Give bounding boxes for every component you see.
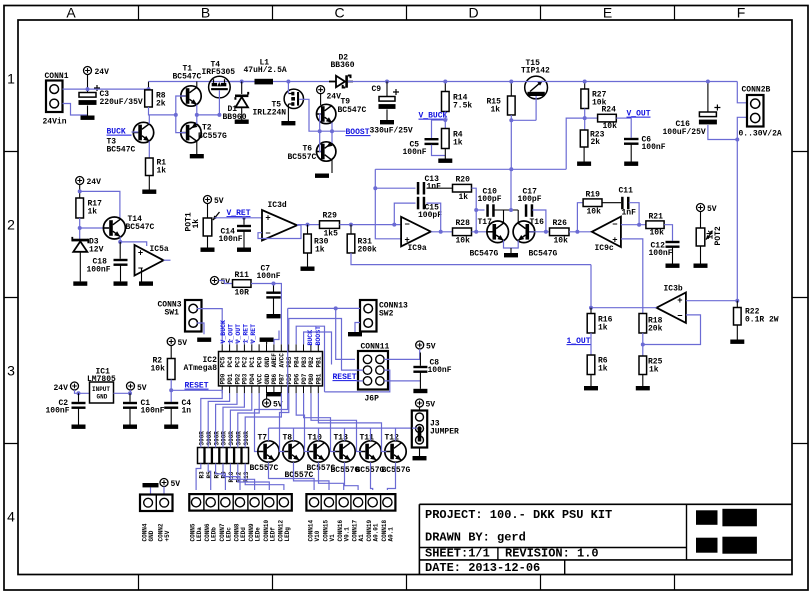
svg-text:V_BUCK: V_BUCK <box>220 320 227 344</box>
wire R14 top stem <box>444 82 446 92</box>
wire C4 gnd <box>170 409 172 425</box>
wire R25 to gnd <box>642 375 644 387</box>
power +5V (IC1 out) <box>127 382 147 393</box>
wire node to R24 <box>585 117 598 119</box>
svg-text:1nF: 1nF <box>622 209 637 218</box>
IC2 bottom pin names <box>220 373 323 384</box>
svg-text:1n: 1n <box>182 407 192 416</box>
svg-text:IC3d: IC3d <box>268 201 287 210</box>
connector CONN11 <box>358 351 388 390</box>
transistor T12 (PNP) <box>385 441 406 462</box>
ground D3 <box>73 281 87 285</box>
svg-text:1k: 1k <box>491 106 501 115</box>
svg-text:0..30V/2A: 0..30V/2A <box>739 130 782 139</box>
wire R4 to gnd <box>444 149 446 159</box>
svg-text:PD3: PD3 <box>242 373 249 384</box>
capacitor C13 <box>417 182 425 195</box>
jct C7 R11 <box>272 282 276 286</box>
ground IC2 GND <box>267 392 281 396</box>
jct T14 base node <box>78 226 82 230</box>
svg-text:LEDf: LEDf <box>269 527 276 542</box>
wire 5V to J3 <box>419 407 421 411</box>
power +5V (J3) <box>416 399 436 410</box>
svg-text:T12: T12 <box>385 434 400 443</box>
jct T5 rail <box>286 80 290 84</box>
wire emitter node to T4 gate <box>197 114 220 116</box>
svg-text:IRF5305: IRF5305 <box>202 68 236 77</box>
transistor T3 <box>133 122 153 142</box>
svg-text:R29: R29 <box>323 212 338 221</box>
svg-text:C: C <box>334 5 344 21</box>
wire R15 top stem <box>510 82 512 97</box>
power +5V (POT1) <box>204 196 224 207</box>
ground T2 <box>190 154 204 158</box>
frame row numbers 1-4 <box>7 71 15 525</box>
wire C5 bottom <box>432 145 446 156</box>
svg-text:T11: T11 <box>360 434 375 443</box>
wire emitters join <box>504 240 519 248</box>
jct R19 node <box>575 230 579 234</box>
jct return node <box>735 138 739 142</box>
jct feedback node <box>641 343 645 347</box>
jct emitter C18 node <box>118 240 122 244</box>
inductor L1 <box>255 79 274 85</box>
capacitor C3 <box>79 85 101 105</box>
wire T14 emitter <box>120 237 147 246</box>
ground C7 <box>267 314 281 318</box>
wire R18 to R25 <box>642 333 644 356</box>
capacitor C5 <box>425 138 439 145</box>
svg-text:R7: R7 <box>213 471 220 479</box>
wire V_OUT to C6 <box>630 118 632 138</box>
op-amp IC9c (mirrored) <box>592 217 621 253</box>
wire T15 emitter down <box>535 96 537 120</box>
svg-text:PB7: PB7 <box>279 373 286 384</box>
svg-text:PD0: PD0 <box>220 373 227 384</box>
svg-text:IRLZ24N: IRLZ24N <box>253 109 287 118</box>
wire base T15 <box>511 119 536 121</box>
svg-text:PD6: PD6 <box>293 373 300 384</box>
svg-text:T7: T7 <box>258 434 268 443</box>
wire J3 mid stub <box>412 427 417 429</box>
wire R29 to IC9a minus <box>340 224 402 226</box>
svg-text:BC547G: BC547G <box>529 250 558 259</box>
svg-text:TIP142: TIP142 <box>521 67 550 76</box>
wire J3 to gnd <box>419 448 421 457</box>
jct C15 node <box>392 223 396 227</box>
IC2 top pin names <box>220 353 323 368</box>
svg-text:+: + <box>404 234 409 244</box>
wire IC1 out <box>114 390 131 393</box>
svg-text:T13: T13 <box>334 434 349 443</box>
svg-text:IC9a: IC9a <box>408 244 427 253</box>
connector CONN4/CONN2 <box>140 495 173 512</box>
wire 24V to IC1 <box>75 390 90 393</box>
power +5V (R11) <box>211 277 231 288</box>
resistor R30 <box>304 234 329 255</box>
wire return down to R22 <box>736 140 738 301</box>
transistor T16 (mirrored) <box>513 221 535 243</box>
svg-text:R26: R26 <box>553 219 568 228</box>
wire R31 top stem <box>350 225 352 234</box>
svg-text:LEDc: LEDc <box>225 527 232 542</box>
wire 5V to CONN11 <box>384 349 420 359</box>
wire AREF stub <box>274 331 279 345</box>
op-amp IC3b (mirrored) <box>657 285 686 323</box>
wire T1 emitter/T2 emitter node <box>196 105 198 124</box>
ground POT1 <box>201 248 215 252</box>
ground R1 <box>142 190 156 194</box>
jct R24 node <box>583 116 587 120</box>
wire C1 gnd <box>129 409 131 425</box>
resistor R26 <box>550 219 570 246</box>
svg-text:PB6: PB6 <box>271 373 278 384</box>
svg-text:R21: R21 <box>649 213 664 222</box>
ground R25 <box>636 386 650 390</box>
svg-text:0.1R 2W: 0.1R 2W <box>745 316 779 325</box>
power +5V (R2) <box>167 338 187 349</box>
resistor R20 <box>453 176 472 203</box>
wire C18 to gnd <box>120 266 122 282</box>
svg-text:BC547C: BC547C <box>126 223 155 232</box>
title block box <box>419 504 792 574</box>
wire D1 to gnd <box>241 107 243 119</box>
ground R6 <box>584 386 598 390</box>
svg-text:5V: 5V <box>137 384 147 393</box>
capacitor C18 <box>114 259 128 266</box>
wire T9 emitter to T6 emitter <box>331 123 333 132</box>
resistor R28 <box>453 219 472 246</box>
svg-text:CONN11: CONN11 <box>361 343 390 352</box>
wire V_OUT sense left <box>566 118 585 169</box>
svg-text:20k: 20k <box>648 325 663 334</box>
jct base node <box>174 113 178 117</box>
svg-text:LEDb: LEDb <box>211 527 218 542</box>
wire T16 base <box>530 231 550 233</box>
connector CONN13 <box>360 300 377 332</box>
svg-text:−: − <box>677 311 682 321</box>
wire C8 bottom <box>419 373 421 389</box>
wire base T14 <box>80 227 109 229</box>
svg-text:−: − <box>265 228 270 238</box>
wire CONN1 pin1 to 24V rail <box>63 88 88 90</box>
wire T5 gate to driver <box>299 99 345 131</box>
wire POT1 to gnd <box>207 236 209 248</box>
transistor T8 (PNP) <box>283 441 304 462</box>
svg-text:C9: C9 <box>372 85 382 94</box>
diode D2 (schottky) <box>329 75 353 87</box>
jct SW2 wire <box>334 306 338 310</box>
ground C4 <box>164 425 178 429</box>
svg-text:R9: R9 <box>221 471 228 479</box>
wire 24V ref stem <box>79 185 81 199</box>
wire R8 top stem <box>148 82 150 90</box>
capacitor C11 <box>621 197 629 210</box>
svg-text:2k: 2k <box>156 100 166 109</box>
svg-text:1k: 1k <box>649 366 659 375</box>
svg-text:BC547C: BC547C <box>173 73 202 82</box>
capacitor C4 <box>164 402 178 409</box>
wire C15 branch <box>394 203 415 225</box>
svg-text:100nF: 100nF <box>46 407 70 416</box>
svg-text:PB4: PB4 <box>293 356 300 367</box>
resistor R22 <box>734 308 779 326</box>
wire V_RET to IC3d <box>215 217 263 219</box>
wire mini strip pins <box>150 488 152 495</box>
jct T17 base node <box>474 230 478 234</box>
svg-text:A0.01: A0.01 <box>373 523 380 541</box>
ground T5 <box>281 121 295 125</box>
wire D1 stem <box>241 82 243 95</box>
svg-text:5V: 5V <box>426 343 436 352</box>
wire to T14 collector <box>80 191 120 219</box>
wire T2 collector to gnd <box>196 141 198 154</box>
wire RESET to CONN11 <box>357 380 364 382</box>
resistor R11 <box>233 271 252 298</box>
op-amp IC9a <box>401 217 431 253</box>
wire transistor emitter rail to J3 <box>269 428 417 441</box>
wire R1 to gnd <box>148 176 150 190</box>
wire T16 collector <box>517 210 519 223</box>
wire BUCK to T3 base <box>132 131 139 133</box>
svg-text:7.5k: 7.5k <box>453 102 472 111</box>
jct D1 rail <box>240 80 244 84</box>
jct boost emitters <box>330 129 334 133</box>
svg-text:CONN2B: CONN2B <box>742 86 771 95</box>
svg-text:PC1: PC1 <box>249 356 256 367</box>
wire T3 collector <box>148 115 150 124</box>
wire T9 T6 base tie <box>320 114 321 152</box>
svg-text:BC547C: BC547C <box>107 146 136 155</box>
wire R20 to T17 upper <box>472 188 477 232</box>
capacitor C9 <box>379 89 400 109</box>
wire T1T2 base tie <box>176 96 186 133</box>
wire C9 to gnd <box>386 109 388 120</box>
title block logo <box>696 509 757 554</box>
jct R14 rail <box>443 80 447 84</box>
wire C9 stem <box>386 82 388 97</box>
resistor R18 <box>639 314 663 334</box>
jct boost bases <box>318 129 322 133</box>
diode D1 (schottky) <box>235 92 248 107</box>
svg-text:PD5: PD5 <box>286 373 293 384</box>
ground T6 <box>315 174 329 178</box>
wire R23 to gnd <box>583 147 585 162</box>
connector CONN2B <box>747 95 764 127</box>
svg-text:IC5a: IC5a <box>150 245 169 254</box>
svg-text:R28: R28 <box>456 219 471 228</box>
svg-text:E: E <box>603 5 612 21</box>
ground C18 <box>114 281 128 285</box>
IC U1 LM7805 body <box>90 382 114 403</box>
svg-text:1k: 1k <box>598 365 608 374</box>
wire R31 bottom to bus <box>351 253 591 265</box>
wire SW1 pin2 to gnd <box>197 323 204 334</box>
jct C10 left <box>474 208 478 212</box>
svg-text:1nF: 1nF <box>427 183 442 192</box>
svg-text:PC0: PC0 <box>256 356 263 367</box>
svg-text:2k: 2k <box>591 138 601 147</box>
svg-text:100nF: 100nF <box>403 148 427 157</box>
wire IC5a output stub <box>164 259 171 261</box>
wire C13 right to R20 <box>427 187 453 189</box>
svg-text:300R: 300R <box>206 431 213 446</box>
ground R4 <box>438 159 452 163</box>
svg-text:BC547G: BC547G <box>470 250 499 259</box>
capacitor C7 <box>266 292 281 299</box>
svg-text:SHEET:1/1: SHEET:1/1 <box>425 547 490 561</box>
jct ref collector node <box>78 189 82 193</box>
wire main 24V rail <box>149 81 255 83</box>
svg-text:10k: 10k <box>650 229 665 238</box>
wire D3 to gnd <box>79 252 81 282</box>
jct R16 node <box>589 306 593 310</box>
transistor T7 (PNP) <box>258 441 279 462</box>
net labels V_BUCK 1_OUT V_OUT 1_RET V_RET <box>220 320 257 344</box>
wire IC9c plus input <box>621 239 643 314</box>
jct R22 node <box>735 299 739 303</box>
svg-text:100nF: 100nF <box>642 143 666 152</box>
power +24V (input) <box>84 67 110 78</box>
svg-text:4: 4 <box>7 509 15 525</box>
transistor T15 <box>525 76 548 99</box>
svg-text:PC5: PC5 <box>220 356 227 367</box>
capacitor C12 <box>666 241 680 248</box>
power +24V (IC1) <box>54 382 79 393</box>
svg-text:GND: GND <box>148 530 155 541</box>
svg-text:5V: 5V <box>178 339 188 348</box>
wire T4 gate down <box>218 90 220 115</box>
capacitor C15 <box>417 197 425 210</box>
svg-text:PROJECT: 100.- DKK PSU KIT: PROJECT: 100.- DKK PSU KIT <box>425 508 612 522</box>
svg-text:1k: 1k <box>192 219 201 229</box>
svg-text:100nF: 100nF <box>141 407 165 416</box>
wire CONN11 p6 to gnd net <box>384 380 420 382</box>
transistor T10 (PNP) <box>308 441 329 462</box>
wire V_OUT sense across <box>375 168 566 170</box>
IC2 bottom pin stubs <box>222 386 318 393</box>
svg-text:1_RET: 1_RET <box>242 324 249 344</box>
svg-text:PD1: PD1 <box>227 373 234 384</box>
svg-text:A1: A1 <box>358 534 365 542</box>
wire T3 emitter to R1 <box>148 141 150 158</box>
wire loop PB4 <box>296 326 324 392</box>
wire R6 to gnd <box>590 375 592 387</box>
connector CONN3 <box>185 300 202 332</box>
wire C16 bottom return <box>708 117 748 139</box>
svg-text:5V: 5V <box>707 205 717 214</box>
wire 5V to POT2 <box>700 212 702 229</box>
svg-text:R11: R11 <box>235 271 250 280</box>
ground R23 <box>577 162 591 166</box>
wire loop PB5 <box>289 319 364 371</box>
IC2 top pin stubs <box>222 344 318 351</box>
svg-text:ATmega8: ATmega8 <box>184 364 218 373</box>
wire C10 right to collectors <box>494 209 518 211</box>
svg-text:100pF: 100pF <box>418 211 442 220</box>
wire rail through T15 <box>525 81 585 83</box>
jct T15 base node <box>509 118 513 122</box>
svg-text:100uF/25V: 100uF/25V <box>663 128 706 137</box>
wire IC9c minus input <box>621 224 646 226</box>
svg-text:LM7805: LM7805 <box>87 375 116 384</box>
svg-text:300R: 300R <box>243 431 250 446</box>
ground C14 <box>237 248 251 252</box>
svg-text:T17: T17 <box>478 218 493 227</box>
wire rail T4 to L1 <box>230 81 254 83</box>
wire R22 to gnd <box>736 325 738 340</box>
wire T5 source to gnd <box>287 104 289 121</box>
svg-text:1k: 1k <box>459 193 469 202</box>
wire C14 to gnd <box>243 232 245 248</box>
wire C12 to gnd <box>672 248 674 264</box>
power +5V (IC2 VCC) <box>263 399 283 410</box>
ground C12 <box>666 264 680 268</box>
connector J3 jumper <box>412 411 427 448</box>
resistor R8 <box>145 90 166 109</box>
svg-text:24V: 24V <box>54 384 69 393</box>
wire IC5a minus to gnd <box>141 269 143 282</box>
wire R30 to gnd <box>307 253 309 267</box>
resistor R23 <box>580 130 604 147</box>
svg-text:+: + <box>677 295 682 305</box>
wire C11 right <box>629 203 639 225</box>
wire collectors up <box>510 169 512 210</box>
capacitor C17 <box>525 204 533 217</box>
wire rail D2 to C9 <box>348 81 446 83</box>
svg-text:REVISION: 1.0: REVISION: 1.0 <box>505 547 599 561</box>
wire AVCC from C7 <box>274 284 282 345</box>
power +5V (CONN11) <box>416 341 436 352</box>
wire C16 stem <box>707 82 709 113</box>
ground SW1 <box>197 338 211 342</box>
resistor R14 <box>442 92 473 112</box>
jct C4 node <box>169 388 173 392</box>
wire IC9a out <box>431 231 453 233</box>
svg-text:BOOST: BOOST <box>315 326 322 346</box>
jct collectors <box>509 208 513 212</box>
wire SW1 pin1 to IC2 <box>197 309 222 345</box>
svg-text:A0.1: A0.1 <box>387 527 394 542</box>
svg-text:PB5: PB5 <box>286 356 293 367</box>
ground R30 <box>301 267 315 271</box>
jct CONN1 rail <box>86 87 90 91</box>
svg-text:10k: 10k <box>151 365 166 374</box>
wires IC2 analog pins up <box>230 339 252 344</box>
resistor R15 <box>487 96 516 115</box>
wire R19 to C11 <box>602 202 621 204</box>
svg-text:1k: 1k <box>598 324 608 333</box>
power +5V (POT2) <box>697 204 717 215</box>
svg-text:300R: 300R <box>228 431 235 446</box>
svg-text:BC557G: BC557G <box>198 132 227 141</box>
svg-text:100nF: 100nF <box>87 266 111 275</box>
svg-text:PB1: PB1 <box>316 356 323 367</box>
resistor R25 <box>639 356 663 375</box>
ground R22 <box>730 340 744 344</box>
wire SW2 pin2 gnd <box>355 323 360 333</box>
svg-text:BC557C: BC557C <box>288 153 317 162</box>
labels CONN14-CONN18 <box>308 519 395 541</box>
wire C6 to gnd <box>630 145 632 162</box>
svg-text:24V: 24V <box>87 178 102 187</box>
resistor R21 <box>646 213 664 238</box>
transistor T2 (PNP) <box>181 122 201 142</box>
svg-text:GND: GND <box>97 394 108 401</box>
svg-text:200k: 200k <box>358 246 377 255</box>
svg-text:T10: T10 <box>308 434 323 443</box>
wire 5V to POT1 <box>207 204 209 219</box>
